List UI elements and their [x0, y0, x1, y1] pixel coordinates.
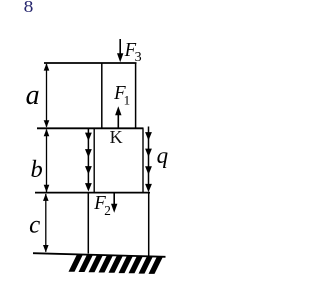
svg-text:c: c: [29, 211, 40, 238]
svg-text:a: a: [26, 80, 40, 111]
upper column left edge: [101, 63, 103, 129]
boundary line between a and b: [37, 127, 144, 129]
label F2: [93, 191, 111, 218]
force F1 arrow (upward inside upper column): [115, 106, 121, 128]
dimension line c: [43, 194, 49, 253]
force F2 arrow (downward below b/c boundary): [111, 193, 117, 213]
svg-text:b: b: [31, 156, 43, 183]
lower column left edge: [87, 193, 89, 254]
svg-text:K: K: [110, 127, 123, 147]
dimension line b: [44, 129, 50, 192]
distributed load q right arrow column: [145, 127, 152, 193]
label F3: [124, 38, 142, 65]
svg-text:3: 3: [135, 50, 142, 65]
svg-text:1: 1: [124, 93, 131, 108]
lower column right edge: [148, 193, 150, 257]
svg-text:2: 2: [104, 203, 111, 218]
dimension line a: [44, 63, 50, 127]
label F1: [113, 81, 130, 107]
ground surface line: [33, 253, 166, 257]
ground hatching: [69, 254, 164, 274]
middle rectangle (section b bar) left edge: [93, 128, 95, 192]
upper column right edge: [135, 63, 137, 129]
svg-text:q: q: [157, 143, 169, 168]
distributed load q left arrow column: [85, 129, 92, 192]
boundary line between b and c: [35, 192, 150, 194]
top boundary line of section a: [44, 62, 137, 64]
middle rectangle right edge: [142, 128, 144, 192]
force F3 arrow (downward onto top line): [117, 39, 123, 62]
svg-text:8: 8: [24, 0, 34, 16]
